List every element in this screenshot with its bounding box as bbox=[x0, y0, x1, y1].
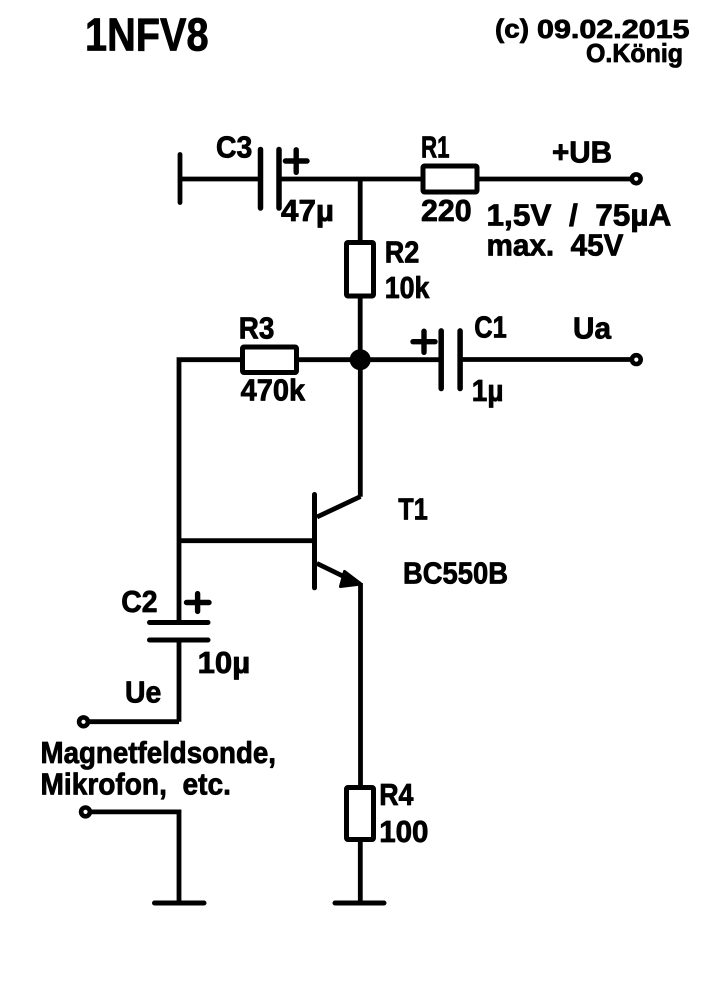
svg-text:R2: R2 bbox=[385, 236, 420, 270]
svg-text:R3: R3 bbox=[239, 312, 275, 346]
svg-text:C3: C3 bbox=[216, 131, 252, 165]
svg-text:+UB: +UB bbox=[552, 136, 612, 170]
svg-text:Ue: Ue bbox=[125, 675, 161, 709]
svg-text:max. 45V: max. 45V bbox=[487, 229, 625, 263]
svg-text:(c): (c) bbox=[495, 14, 529, 44]
svg-text:1NFV8: 1NFV8 bbox=[85, 9, 209, 61]
svg-text:10k: 10k bbox=[385, 271, 430, 305]
svg-text:10µ: 10µ bbox=[198, 646, 251, 680]
svg-text:R1: R1 bbox=[421, 131, 450, 165]
svg-text:R4: R4 bbox=[379, 778, 413, 812]
svg-text:220: 220 bbox=[421, 194, 472, 228]
svg-text:100: 100 bbox=[379, 815, 428, 849]
svg-text:Magnetfeldsonde,: Magnetfeldsonde, bbox=[41, 736, 277, 770]
svg-text:Mikrofon, etc.: Mikrofon, etc. bbox=[41, 768, 231, 802]
svg-text:C2: C2 bbox=[121, 585, 157, 619]
svg-text:1,5V / 75µA: 1,5V / 75µA bbox=[487, 199, 672, 233]
svg-text:BC550B: BC550B bbox=[403, 557, 508, 591]
svg-text:1µ: 1µ bbox=[472, 374, 504, 408]
svg-text:470k: 470k bbox=[241, 374, 306, 408]
svg-text:C1: C1 bbox=[474, 311, 507, 345]
svg-text:Ua: Ua bbox=[573, 312, 612, 346]
svg-text:47µ: 47µ bbox=[281, 194, 334, 228]
svg-text:O.König: O.König bbox=[586, 38, 683, 68]
svg-text:T1: T1 bbox=[398, 493, 428, 527]
